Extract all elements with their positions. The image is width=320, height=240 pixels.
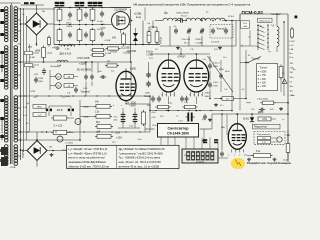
svg-text:2,2к: 2,2к xyxy=(23,115,27,117)
svg-text:24б: 24б xyxy=(112,38,117,40)
svg-text:НЮж: НЮж xyxy=(37,106,43,108)
svg-text:630Б: 630Б xyxy=(101,27,107,29)
svg-text:6,3В: 6,3В xyxy=(30,57,35,59)
svg-text:Удлинение: Удлинение xyxy=(259,20,271,22)
svg-text:2×5,6к: 2×5,6к xyxy=(110,51,118,54)
svg-text:ТН46-127/220-50: ТН46-127/220-50 xyxy=(0,51,4,73)
svg-text:19к: 19к xyxy=(147,105,150,107)
svg-text:7000: 7000 xyxy=(213,85,219,87)
svg-text:0,01+2: 0,01+2 xyxy=(213,63,221,65)
svg-text:2×8,2к: 2×8,2к xyxy=(160,36,163,44)
svg-text:L₁: L₁ xyxy=(206,10,208,14)
svg-text:Др₃: Др₃ xyxy=(118,95,121,97)
svg-text:47.б: 47.б xyxy=(114,117,119,119)
svg-text:630 В: 630 В xyxy=(67,26,73,28)
svg-text:Ант.: Ант. xyxy=(289,52,293,55)
svg-text:3,01+: 3,01+ xyxy=(213,82,219,84)
svg-text:1л 400б: 1л 400б xyxy=(65,143,74,145)
svg-text:ДБМ: ДБМ xyxy=(258,111,263,114)
svg-text:МБМ: МБМ xyxy=(84,116,89,118)
svg-text:Вк: Вк xyxy=(57,77,59,79)
svg-text:+150б: +150б xyxy=(260,71,267,73)
svg-text:Тр₂: Тр₂ xyxy=(268,51,271,53)
svg-text:47н: 47н xyxy=(220,105,223,107)
svg-text:2С210Б: 2С210Б xyxy=(121,47,130,50)
svg-text:+ 75б: + 75б xyxy=(260,75,267,77)
svg-text:f₂: f₂ xyxy=(229,154,231,156)
svg-text:f₂: f₂ xyxy=(189,94,191,96)
svg-text:47б: 47б xyxy=(28,47,33,49)
svg-text:СГ1П-400Б: СГ1П-400Б xyxy=(77,57,90,60)
svg-text:1н: 1н xyxy=(282,119,284,121)
svg-text:Синтезатор: Синтезатор xyxy=(167,126,189,130)
svg-text:12×3: 12×3 xyxy=(243,22,247,25)
svg-text:6П43П: 6П43П xyxy=(178,56,186,59)
svg-text:КСО-7: КСО-7 xyxy=(181,16,188,18)
svg-text:2400: 2400 xyxy=(205,93,211,95)
svg-text:3000: 3000 xyxy=(213,66,219,68)
svg-text:КЗ.: КЗ. xyxy=(290,81,293,83)
svg-text:127В: 127В xyxy=(30,91,36,93)
svg-text:вход: вход xyxy=(136,17,142,19)
svg-text:2400: 2400 xyxy=(145,93,151,95)
svg-text:"Модулятор": "Модулятор" xyxy=(254,126,268,129)
svg-text:ЮД405А: ЮД405А xyxy=(22,149,25,158)
svg-text:+220В: +220В xyxy=(79,63,87,66)
svg-text:+210Б: +210Б xyxy=(104,40,111,42)
svg-text:+210В: +210В xyxy=(123,52,131,55)
svg-text:и59б: и59б xyxy=(35,51,41,53)
svg-text:ДБ0-5 А19: ДБ0-5 А19 xyxy=(60,53,72,56)
svg-text:+400: +400 xyxy=(243,26,247,28)
svg-text:10К.б: 10К.б xyxy=(66,23,72,25)
svg-text:f₂: f₂ xyxy=(161,94,163,96)
svg-text:АМ радиовещательный передатчик: АМ радиовещательный передатчик 10Вт. Пре… xyxy=(133,2,251,6)
svg-text:"Антенна": "Антенна" xyxy=(271,13,282,16)
svg-text:КСО: КСО xyxy=(214,49,219,51)
svg-text:10н: 10н xyxy=(223,57,226,59)
svg-text:антенна 42 м, выс. 11 м +210В: антенна 42 м, выс. 11 м +210В xyxy=(119,164,159,168)
svg-text:60 В1: 60 В1 xyxy=(243,118,250,120)
svg-text:"Уровень": "Уровень" xyxy=(80,92,91,94)
svg-text:"Сетка": "Сетка" xyxy=(259,66,268,69)
svg-text:5800: 5800 xyxy=(205,96,211,98)
svg-text:f₃: f₃ xyxy=(193,94,195,96)
svg-text:~220: ~220 xyxy=(33,74,39,76)
svg-text:270В: 270В xyxy=(38,78,44,80)
svg-text:f₃: f₃ xyxy=(166,94,168,96)
svg-text:1,2к: 1,2к xyxy=(184,102,188,104)
svg-text:51к: 51к xyxy=(203,59,206,61)
svg-text:0-75Ω: 0-75Ω xyxy=(289,41,295,43)
svg-text:0,5А: 0,5А xyxy=(57,64,62,67)
svg-text:в 1,5: в 1,5 xyxy=(289,45,293,47)
svg-text:68н: 68н xyxy=(147,35,150,37)
svg-text:+ 10б: + 10б xyxy=(260,86,267,88)
svg-text:+10б: +10б xyxy=(116,137,122,140)
svg-text:2,2к: 2,2к xyxy=(38,115,42,117)
svg-text:4,7к: 4,7к xyxy=(262,142,266,144)
svg-text:1н: 1н xyxy=(150,29,152,31)
svg-text:42 м: 42 м xyxy=(289,57,294,59)
svg-text:КТ-2: КТ-2 xyxy=(184,42,189,44)
svg-text:+ 30б: + 30б xyxy=(260,83,267,85)
svg-text:Разработчик: Сергей Комаров: Разработчик: Сергей Комаров xyxy=(247,161,291,165)
svg-text:f₃: f₃ xyxy=(239,154,241,156)
svg-text:МБМ: МБМ xyxy=(84,106,89,108)
svg-text:4 1449 00: 4 1449 00 xyxy=(196,161,204,163)
svg-text:100 В: 100 В xyxy=(57,110,63,112)
svg-text:f₂: f₂ xyxy=(113,105,115,107)
svg-text:"Под антенны": "Под антенны" xyxy=(257,134,272,136)
svg-text:+210В,: +210В, xyxy=(134,12,143,16)
svg-text:Тр₃: Тр₃ xyxy=(260,26,263,28)
svg-text:Сф: Сф xyxy=(147,22,150,25)
svg-text:+400В: +400В xyxy=(52,47,60,50)
svg-text:51б: 51б xyxy=(96,122,101,124)
svg-text:2×36к: 2×36к xyxy=(97,20,103,23)
svg-text:1300+1800В: 1300+1800В xyxy=(176,13,189,15)
svg-text:Ан: Ан xyxy=(293,68,295,71)
svg-text:КПВ-2: КПВ-2 xyxy=(196,39,203,41)
svg-text:42м: 42м xyxy=(291,95,295,97)
svg-text:ПСМ-0,81: ПСМ-0,81 xyxy=(242,10,264,16)
svg-text:3×100пФ: 3×100пФ xyxy=(211,41,220,44)
svg-text:обмотки 2×25 вит. ПЭЛ 0,35 км: обмотки 2×25 вит. ПЭЛ 0,35 км xyxy=(68,164,109,168)
svg-text:0,022 400б: 0,022 400б xyxy=(257,98,269,100)
svg-text:+175В: +175В xyxy=(146,53,153,56)
svg-text:75Ω: 75Ω xyxy=(290,63,294,65)
svg-text:С9-1449-1800: С9-1449-1800 xyxy=(167,132,189,136)
svg-text:6,3В: 6,3В xyxy=(30,67,35,69)
svg-text:+ 50б: + 50б xyxy=(260,79,267,81)
svg-text:30н: 30н xyxy=(202,119,205,121)
svg-text:Др₂: Др₂ xyxy=(164,12,168,15)
svg-text:Z = 110: Z = 110 xyxy=(54,123,63,127)
svg-text:300б: 300б xyxy=(38,81,44,83)
svg-text:~220В: ~220В xyxy=(9,167,16,169)
svg-text:ВС-0114Ф0/Б: ВС-0114Ф0/Б xyxy=(77,69,91,72)
svg-text:1,8м: 1,8м xyxy=(65,49,70,51)
svg-text:100б: 100б xyxy=(131,106,137,108)
svg-text:С3246МОР: С3246МОР xyxy=(114,8,127,11)
svg-text:Lу: Lу xyxy=(241,45,243,47)
svg-text:220+330: 220+330 xyxy=(182,39,191,41)
svg-text:КСб-5: КСб-5 xyxy=(228,16,235,18)
